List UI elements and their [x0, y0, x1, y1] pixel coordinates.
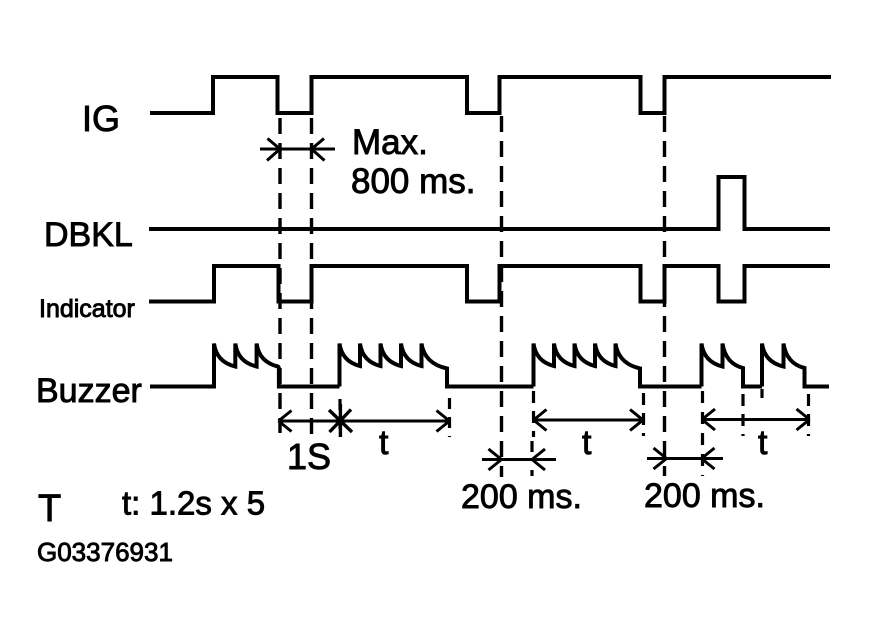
svg-text:DBKL: DBKL	[44, 216, 133, 254]
dimension star at 1S / t junction	[329, 404, 352, 437]
svg-text:T: T	[38, 488, 61, 530]
label t: 1.2s x 5	[122, 485, 265, 522]
svg-text:G03376931: G03376931	[37, 537, 173, 567]
dashed line D3	[500, 116, 503, 477]
label IG	[82, 98, 120, 139]
label Indicator	[39, 295, 135, 323]
label T	[38, 488, 61, 530]
label DBKL	[44, 216, 133, 254]
label 1S	[287, 436, 331, 477]
dimension arrow 200 ms (right)	[647, 448, 723, 469]
wire Buzzer waveform burst 4a	[702, 344, 763, 387]
label t (row 1 right)	[758, 424, 768, 462]
svg-text:Indicator: Indicator	[39, 295, 135, 323]
svg-text:200 ms.: 200 ms.	[461, 478, 582, 516]
dashed tick at buzzer burst2 end	[448, 398, 451, 437]
dimension arrow 1S and t (row 1 left)	[279, 411, 450, 432]
dashed line D2 at IG rising edge	[310, 118, 313, 436]
svg-text:200 ms.: 200 ms.	[644, 477, 765, 515]
dimension arrow Max 800 ms	[260, 139, 335, 161]
wire Buzzer waveform burst 2	[340, 344, 534, 387]
wire Buzzer waveform burst 4b	[762, 344, 829, 387]
wire Buzzer waveform burst 3	[534, 344, 702, 387]
dimension arrow t (row 1 right)	[702, 409, 810, 430]
dashed tick at 200 ms left arrow right end	[530, 441, 533, 476]
svg-text:t: t	[379, 424, 389, 462]
dashed line D1 at IG falling edge	[278, 118, 281, 433]
wire Indicator waveform	[149, 266, 830, 302]
label Buzzer	[36, 372, 142, 410]
label G03376931	[37, 537, 173, 567]
svg-text:t: t	[582, 424, 592, 462]
dashed line D4	[663, 116, 666, 476]
wire DBKL waveform	[149, 177, 830, 229]
dashed tick at buzzer burst3 end	[642, 393, 645, 436]
svg-text:800 ms.: 800 ms.	[351, 162, 476, 201]
svg-text:t: t	[758, 424, 768, 462]
dashed tick at buzzer burst4b start	[760, 389, 763, 405]
dashed tick at buzzer burst4 end	[807, 394, 810, 436]
svg-text:1S: 1S	[287, 436, 331, 477]
dimension arrow t (row 1 middle)	[534, 410, 644, 431]
wire IG waveform	[150, 77, 831, 113]
wire Buzzer waveform burst 1	[150, 344, 340, 387]
dashed tick at buzzer burst4 gap	[741, 394, 744, 436]
svg-text:Max.: Max.	[352, 123, 428, 162]
svg-text:IG: IG	[82, 98, 120, 139]
svg-text:t: 1.2s x 5: t: 1.2s x 5	[122, 485, 265, 522]
svg-text:Buzzer: Buzzer	[36, 372, 142, 410]
dashed tick at buzzer burst3 start	[532, 391, 535, 437]
dashed tick at buzzer burst4 start	[701, 391, 704, 476]
label 200 ms. (left)	[461, 478, 582, 516]
label 200 ms. (right)	[644, 477, 765, 515]
label 800 ms.	[351, 162, 476, 201]
dimension arrow 200 ms (left)	[482, 449, 556, 470]
label t (row 1 middle)	[582, 424, 592, 462]
dashed tick at buzzer burst2 start	[338, 399, 341, 437]
label t (row 1 left)	[379, 424, 389, 462]
label Max.	[352, 123, 428, 162]
